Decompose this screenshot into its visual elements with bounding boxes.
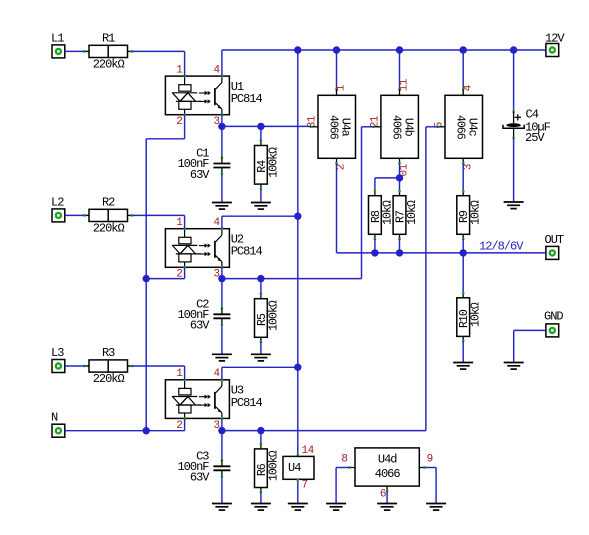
svg-text:8: 8 [341, 454, 347, 466]
svg-text:10kΩ: 10kΩ [470, 302, 483, 327]
svg-text:12/8/6V: 12/8/6V [479, 240, 524, 254]
svg-text:220kΩ: 220kΩ [93, 372, 125, 386]
svg-text:9: 9 [427, 454, 433, 466]
svg-text:2: 2 [176, 116, 182, 128]
svg-text:6: 6 [380, 489, 386, 501]
svg-text:1: 1 [336, 84, 348, 91]
svg-text:14: 14 [302, 445, 315, 457]
svg-text:L1: L1 [51, 32, 64, 46]
svg-text:U4d: U4d [378, 453, 397, 467]
svg-text:63V: 63V [190, 319, 210, 333]
svg-text:4: 4 [213, 217, 220, 229]
svg-text:4: 4 [463, 84, 475, 91]
svg-text:1: 1 [176, 368, 183, 380]
svg-text:63V: 63V [190, 471, 210, 485]
svg-text:PC814: PC814 [231, 245, 263, 259]
svg-text:4066: 4066 [390, 115, 403, 140]
svg-text:100kΩ: 100kΩ [267, 147, 280, 178]
svg-text:3: 3 [463, 164, 475, 170]
svg-text:11: 11 [398, 78, 410, 91]
svg-text:N: N [51, 411, 58, 425]
svg-text:4066: 4066 [454, 115, 467, 140]
svg-text:R1: R1 [102, 32, 115, 46]
svg-text:10kΩ: 10kΩ [406, 200, 419, 225]
svg-text:1: 1 [176, 217, 183, 229]
svg-text:L2: L2 [51, 196, 64, 210]
svg-text:2: 2 [336, 164, 348, 170]
svg-text:PC814: PC814 [231, 92, 263, 106]
svg-text:4: 4 [213, 368, 220, 380]
svg-text:12V: 12V [545, 32, 565, 46]
svg-text:4: 4 [213, 65, 220, 77]
svg-text:100kΩ: 100kΩ [267, 300, 280, 331]
svg-text:100kΩ: 100kΩ [267, 450, 280, 481]
svg-text:220kΩ: 220kΩ [93, 58, 125, 72]
svg-text:1: 1 [176, 65, 183, 77]
svg-text:25V: 25V [525, 131, 545, 145]
svg-text:7: 7 [302, 480, 308, 492]
svg-text:L3: L3 [51, 346, 64, 360]
svg-text:63V: 63V [190, 168, 210, 182]
svg-text:U4: U4 [288, 461, 301, 475]
svg-text:4066: 4066 [375, 467, 401, 481]
svg-text:OUT: OUT [545, 233, 564, 247]
svg-text:10kΩ: 10kΩ [381, 200, 394, 225]
svg-text:R2: R2 [102, 196, 115, 210]
svg-text:R3: R3 [102, 346, 115, 360]
svg-text:220kΩ: 220kΩ [93, 222, 125, 236]
svg-text:GND: GND [544, 310, 563, 324]
svg-text:10kΩ: 10kΩ [470, 200, 483, 225]
svg-text:4066: 4066 [327, 115, 340, 140]
svg-text:PC814: PC814 [231, 396, 263, 410]
